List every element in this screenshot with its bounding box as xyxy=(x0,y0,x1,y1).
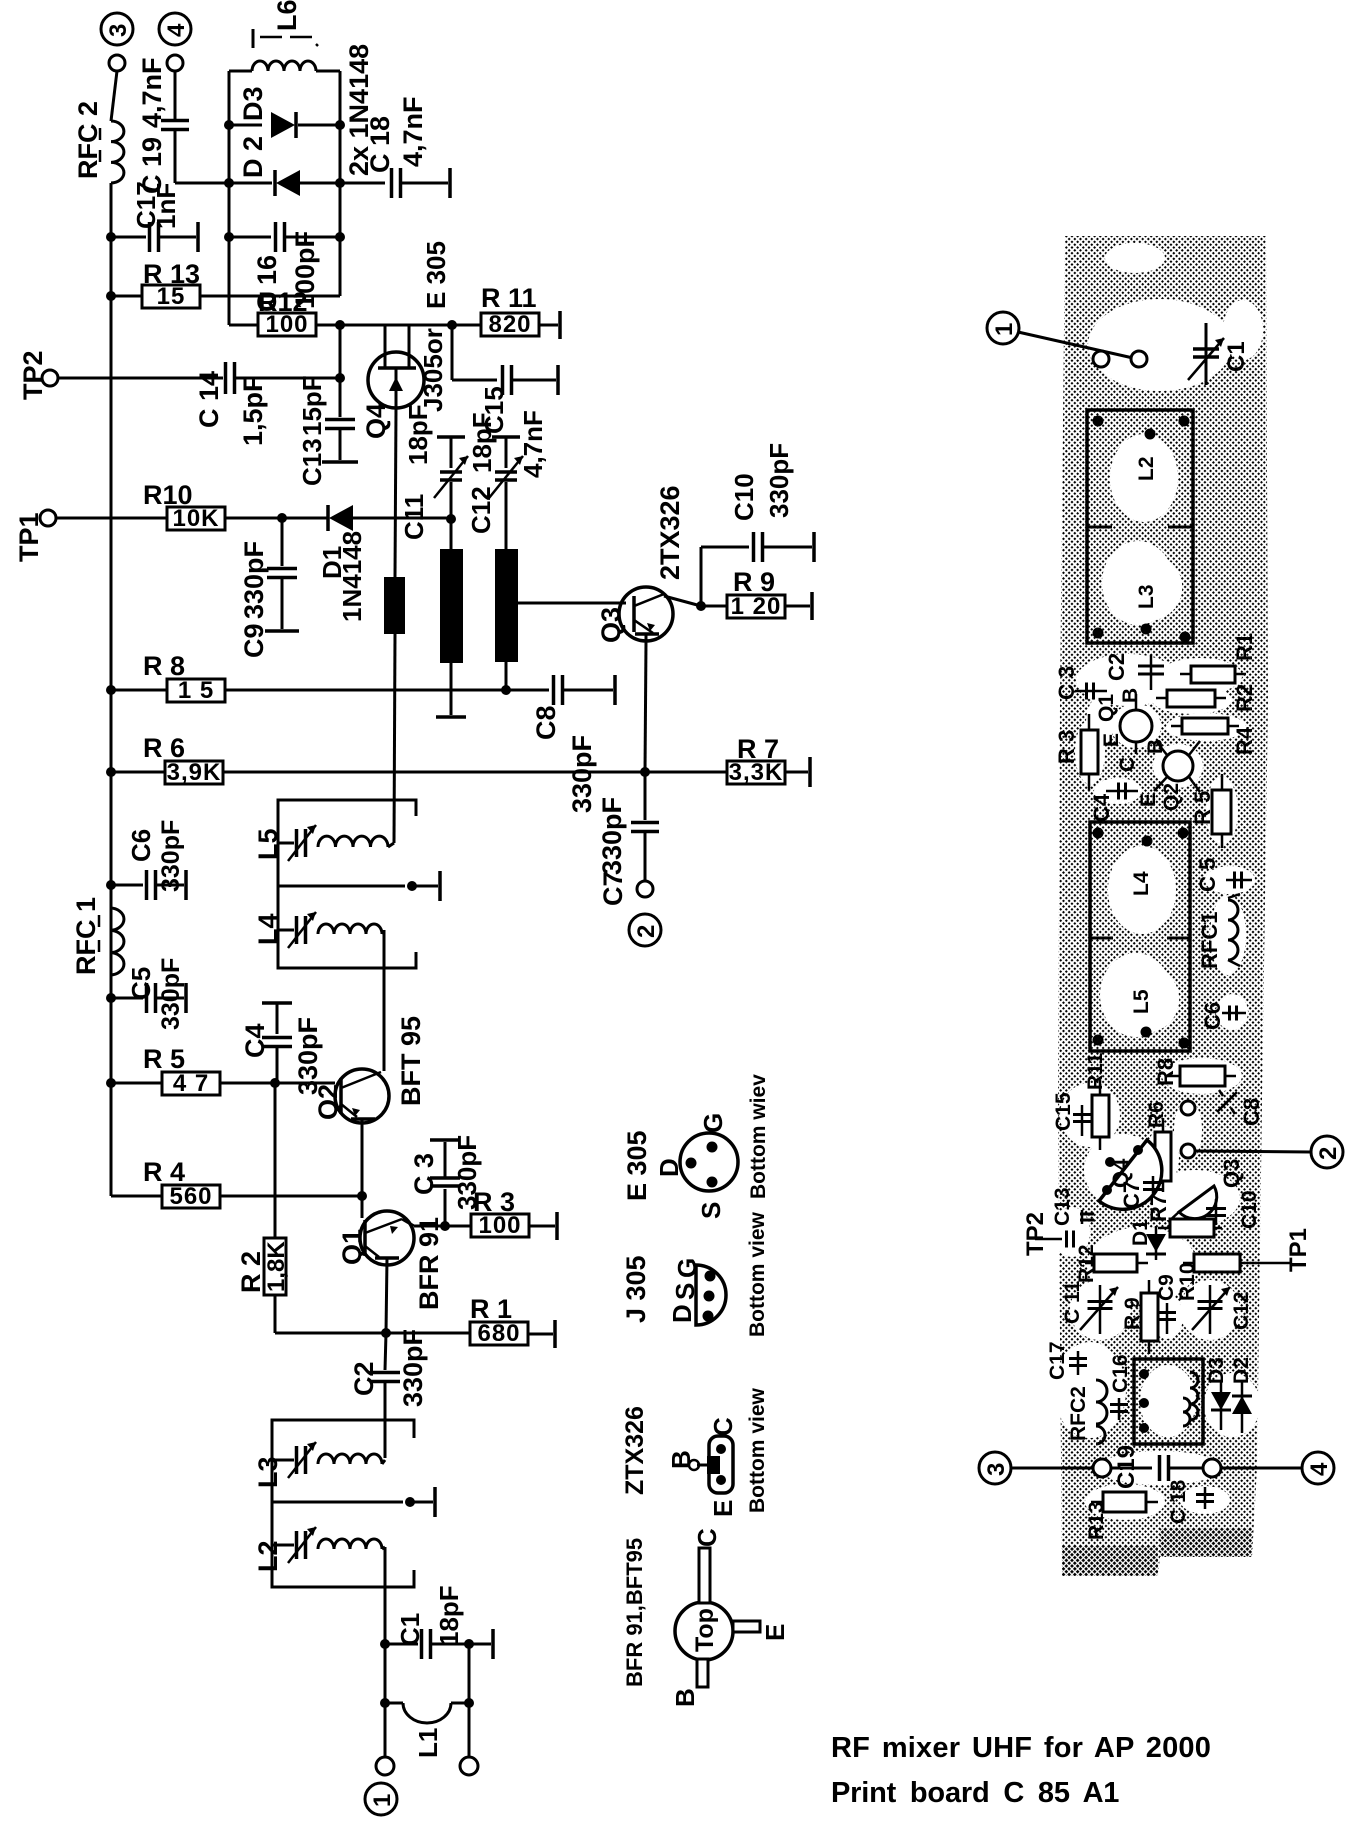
svg-text:Q4: Q4 xyxy=(361,403,391,439)
svg-text:BFR 91: BFR 91 xyxy=(414,1217,444,1310)
svg-text:4 7: 4 7 xyxy=(173,1070,209,1097)
svg-text:J305or: J305or xyxy=(418,328,448,412)
svg-text:C1: C1 xyxy=(1223,341,1250,372)
svg-text:3: 3 xyxy=(983,1463,1010,1476)
svg-text:L6: L6 xyxy=(272,0,302,31)
svg-text:Top: Top xyxy=(691,1608,719,1652)
svg-text:560: 560 xyxy=(169,1183,212,1210)
svg-text:2: 2 xyxy=(1315,1147,1342,1160)
svg-text:1,8K: 1,8K xyxy=(263,1241,290,1292)
svg-text:2TX326: 2TX326 xyxy=(655,485,685,580)
svg-text:18pF: 18pF xyxy=(467,412,497,473)
svg-text:Bottom view: Bottom view xyxy=(746,1211,769,1337)
svg-text:E 305: E 305 xyxy=(421,241,451,309)
svg-text:Q1: Q1 xyxy=(1095,694,1118,722)
svg-text:R 1: R 1 xyxy=(470,1294,512,1324)
svg-text:C17: C17 xyxy=(1046,1341,1069,1380)
svg-text:D3: D3 xyxy=(238,86,268,121)
svg-text:RFC2: RFC2 xyxy=(1067,1386,1090,1441)
svg-text:4: 4 xyxy=(163,23,190,37)
svg-text:E: E xyxy=(760,1624,790,1641)
svg-text:C8: C8 xyxy=(1239,1098,1264,1126)
svg-text:4,7nF: 4,7nF xyxy=(518,410,548,478)
svg-text:330pF: 330pF xyxy=(293,1017,323,1095)
svg-text:C2: C2 xyxy=(1104,653,1129,681)
svg-text:L4: L4 xyxy=(1130,871,1153,896)
svg-text:R6: R6 xyxy=(1145,1101,1168,1128)
svg-text:C: C xyxy=(692,1528,722,1547)
svg-text:ZTX326: ZTX326 xyxy=(621,1406,649,1495)
svg-text:TP1: TP1 xyxy=(1285,1228,1312,1272)
svg-text:RFC 1: RFC 1 xyxy=(71,897,101,975)
svg-text:C10: C10 xyxy=(1238,1190,1261,1229)
svg-text:E 305: E 305 xyxy=(622,1130,652,1201)
svg-text:Q3: Q3 xyxy=(596,607,626,643)
svg-text:R12: R12 xyxy=(258,287,308,317)
svg-text:L5: L5 xyxy=(253,828,283,860)
svg-text:C4: C4 xyxy=(1089,793,1114,822)
svg-text:1 20: 1 20 xyxy=(731,593,782,620)
svg-text:Bottom wiev: Bottom wiev xyxy=(747,1074,770,1199)
svg-text:2: 2 xyxy=(633,925,660,938)
svg-text:C9: C9 xyxy=(1155,1274,1178,1301)
svg-text:1nF: 1nF xyxy=(151,183,181,229)
svg-text:C16: C16 xyxy=(1109,1354,1132,1393)
svg-text:1: 1 xyxy=(991,323,1018,336)
svg-text:B: B xyxy=(666,1450,696,1469)
svg-text:R10: R10 xyxy=(1176,1262,1199,1301)
svg-text:TP1: TP1 xyxy=(14,512,44,562)
svg-text:C: C xyxy=(708,1417,738,1436)
svg-text:BFT 95: BFT 95 xyxy=(396,1016,426,1106)
svg-text:330pF: 330pF xyxy=(597,797,627,875)
svg-text:Print board C 85 A1: Print board C 85 A1 xyxy=(831,1777,1119,1809)
svg-text:S: S xyxy=(670,1283,700,1300)
svg-text:R 4: R 4 xyxy=(143,1157,185,1187)
svg-text:R 8: R 8 xyxy=(143,651,185,681)
svg-text:C1: C1 xyxy=(395,1613,425,1646)
svg-text:C12: C12 xyxy=(466,486,496,534)
svg-text:R12: R12 xyxy=(1075,1244,1098,1283)
svg-text:330pF: 330pF xyxy=(157,958,185,1030)
svg-text:C 18: C 18 xyxy=(365,116,395,173)
svg-text:L2: L2 xyxy=(1135,456,1158,481)
svg-text:J 305: J 305 xyxy=(621,1255,651,1323)
svg-text:L3: L3 xyxy=(1135,584,1158,609)
svg-text:Q2: Q2 xyxy=(313,1084,343,1120)
svg-text:18pF: 18pF xyxy=(434,1585,464,1646)
svg-text:B: B xyxy=(1144,739,1167,754)
svg-text:Q1: Q1 xyxy=(337,1229,367,1265)
svg-text:C5: C5 xyxy=(126,967,156,1000)
svg-text:680: 680 xyxy=(477,1320,520,1347)
svg-text:D1: D1 xyxy=(1129,1219,1152,1246)
svg-text:Q3: Q3 xyxy=(1219,1159,1244,1188)
svg-text:C 3: C 3 xyxy=(409,1153,439,1195)
svg-text:R 2: R 2 xyxy=(236,1251,266,1293)
svg-text:R 5: R 5 xyxy=(1190,791,1215,825)
svg-text:D 2: D 2 xyxy=(238,136,268,178)
svg-text:E: E xyxy=(1137,793,1160,807)
svg-text:C 5: C 5 xyxy=(1195,858,1220,892)
svg-text:3: 3 xyxy=(105,24,132,37)
svg-text:R1: R1 xyxy=(1232,633,1257,661)
svg-text:C 3: C 3 xyxy=(1054,666,1079,700)
svg-text:R 11: R 11 xyxy=(481,283,537,313)
svg-text:BFR 91,BFT95: BFR 91,BFT95 xyxy=(622,1538,647,1687)
svg-text:R 13: R 13 xyxy=(143,259,200,289)
svg-text:TP2: TP2 xyxy=(1022,1212,1049,1256)
svg-text:L5: L5 xyxy=(1130,989,1153,1014)
svg-text:C11: C11 xyxy=(399,494,429,540)
svg-text:R 7: R 7 xyxy=(737,734,779,764)
svg-text:1: 1 xyxy=(369,1794,396,1807)
svg-text:D3: D3 xyxy=(1205,1357,1228,1384)
svg-text:L2: L2 xyxy=(253,1540,283,1572)
svg-text:TP2: TP2 xyxy=(18,350,48,400)
svg-text:330pF: 330pF xyxy=(398,1329,428,1407)
svg-text:L4: L4 xyxy=(253,913,283,945)
svg-text:C15: C15 xyxy=(1052,1092,1075,1131)
svg-text:C6: C6 xyxy=(1200,1002,1225,1030)
svg-text:S: S xyxy=(696,1202,726,1219)
svg-text:820: 820 xyxy=(488,311,531,338)
svg-text:G: G xyxy=(672,1258,702,1278)
svg-text:R 9: R 9 xyxy=(1121,1297,1144,1330)
svg-text:C13: C13 xyxy=(297,438,327,486)
svg-text:C12: C12 xyxy=(1230,1291,1253,1330)
svg-text:4: 4 xyxy=(1306,1462,1333,1476)
svg-text:R 9: R 9 xyxy=(733,567,775,597)
svg-text:C8: C8 xyxy=(531,705,561,740)
svg-text:C9: C9 xyxy=(239,623,269,658)
svg-text:330pF: 330pF xyxy=(239,541,269,619)
svg-text:330pF: 330pF xyxy=(764,443,794,518)
svg-text:RF mixer UHF for AP 2000: RF mixer UHF for AP 2000 xyxy=(831,1732,1211,1764)
svg-text:D2: D2 xyxy=(1230,1357,1253,1384)
svg-text:C 11: C 11 xyxy=(1061,1280,1084,1324)
svg-text:R 5: R 5 xyxy=(143,1044,185,1074)
svg-text:D: D xyxy=(667,1304,697,1323)
svg-text:Bottom view: Bottom view xyxy=(746,1387,769,1513)
svg-text:R4: R4 xyxy=(1232,726,1257,755)
svg-text:C7: C7 xyxy=(1119,1181,1144,1209)
svg-text:C: C xyxy=(1116,757,1139,772)
svg-text:B: B xyxy=(670,1688,700,1707)
svg-text:C 18: C 18 xyxy=(1167,1479,1190,1524)
svg-text:E: E xyxy=(708,1500,738,1517)
svg-text:R 6: R 6 xyxy=(143,733,185,763)
svg-text:R11: R11 xyxy=(1084,1052,1107,1090)
svg-text:RFC1: RFC1 xyxy=(1197,912,1222,969)
svg-text:C6: C6 xyxy=(126,829,156,862)
svg-text:D: D xyxy=(654,1158,684,1177)
svg-text:C13: C13 xyxy=(1051,1187,1074,1226)
svg-text:E: E xyxy=(1100,733,1123,747)
svg-text:B: B xyxy=(1119,688,1142,703)
svg-text:18pF: 18pF xyxy=(403,404,433,465)
svg-text:330pF: 330pF xyxy=(157,820,185,892)
svg-text:Q2: Q2 xyxy=(1160,783,1183,811)
svg-text:L1: L1 xyxy=(413,1728,443,1758)
svg-text:C10: C10 xyxy=(729,473,759,521)
svg-text:15pF: 15pF xyxy=(297,375,327,436)
svg-text:4,7nF: 4,7nF xyxy=(137,57,167,128)
svg-text:RFC 2: RFC 2 xyxy=(73,101,103,179)
svg-text:G: G xyxy=(698,1113,728,1133)
svg-text:R2: R2 xyxy=(1232,684,1257,712)
svg-text:R 3: R 3 xyxy=(473,1187,515,1217)
svg-text:R 3: R 3 xyxy=(1054,730,1079,764)
svg-text:330pF: 330pF xyxy=(567,735,597,813)
svg-text:C7: C7 xyxy=(598,871,628,906)
svg-text:C2: C2 xyxy=(349,1361,379,1396)
svg-text:R13: R13 xyxy=(1085,1501,1108,1540)
svg-text:R8: R8 xyxy=(1153,1058,1178,1086)
svg-text:C 14: C 14 xyxy=(194,371,224,428)
svg-text:1 5: 1 5 xyxy=(178,677,214,704)
svg-text:3,9K: 3,9K xyxy=(167,759,222,786)
svg-text:C4: C4 xyxy=(240,1023,270,1058)
svg-text:1,5pF: 1,5pF xyxy=(238,375,268,446)
svg-text:L3: L3 xyxy=(253,1456,283,1488)
svg-text:R7: R7 xyxy=(1146,1194,1171,1222)
svg-text:R10: R10 xyxy=(143,480,193,510)
svg-text:1N4148: 1N4148 xyxy=(337,531,367,622)
svg-text:4,7nF: 4,7nF xyxy=(398,96,428,167)
